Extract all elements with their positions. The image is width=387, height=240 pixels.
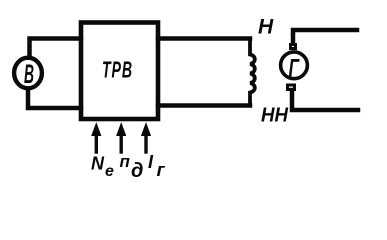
svg-text:В: В [24,59,34,89]
arrow input 2 head [116,122,126,136]
generator G (circle) [281,52,308,79]
wire bottom-right (box to field winding) [158,103,250,108]
wire generator bottom output [292,90,358,110]
svg-text:N: N [91,154,105,174]
wire bottom-left (voltmeter to TRV box) [28,90,81,109]
brush bottom [288,85,295,90]
wire top-left (voltmeter to TRV box) [30,39,82,58]
brush top [291,45,296,49]
svg-text:п: п [120,152,131,171]
svg-text:НН: НН [261,105,289,127]
wire generator top output [293,30,357,43]
svg-text:ТРВ: ТРВ [102,57,133,83]
arrow input 1 head [91,122,101,136]
field winding coil N-NN [250,40,255,104]
svg-text:Н: Н [258,16,274,39]
arrow input 3 shaft [144,132,147,152]
arrow input 3 head [141,122,151,136]
svg-text:Г: Г [289,55,300,83]
arrow input 2 shaft [119,132,122,152]
voltmeter V (circle) [14,58,42,89]
arrow input 1 shaft [95,132,98,152]
wire top-right (box to field winding) [158,36,250,41]
block TRV (regulator box) [81,23,158,120]
svg-text:е: е [105,163,114,180]
svg-text:д: д [131,160,143,182]
